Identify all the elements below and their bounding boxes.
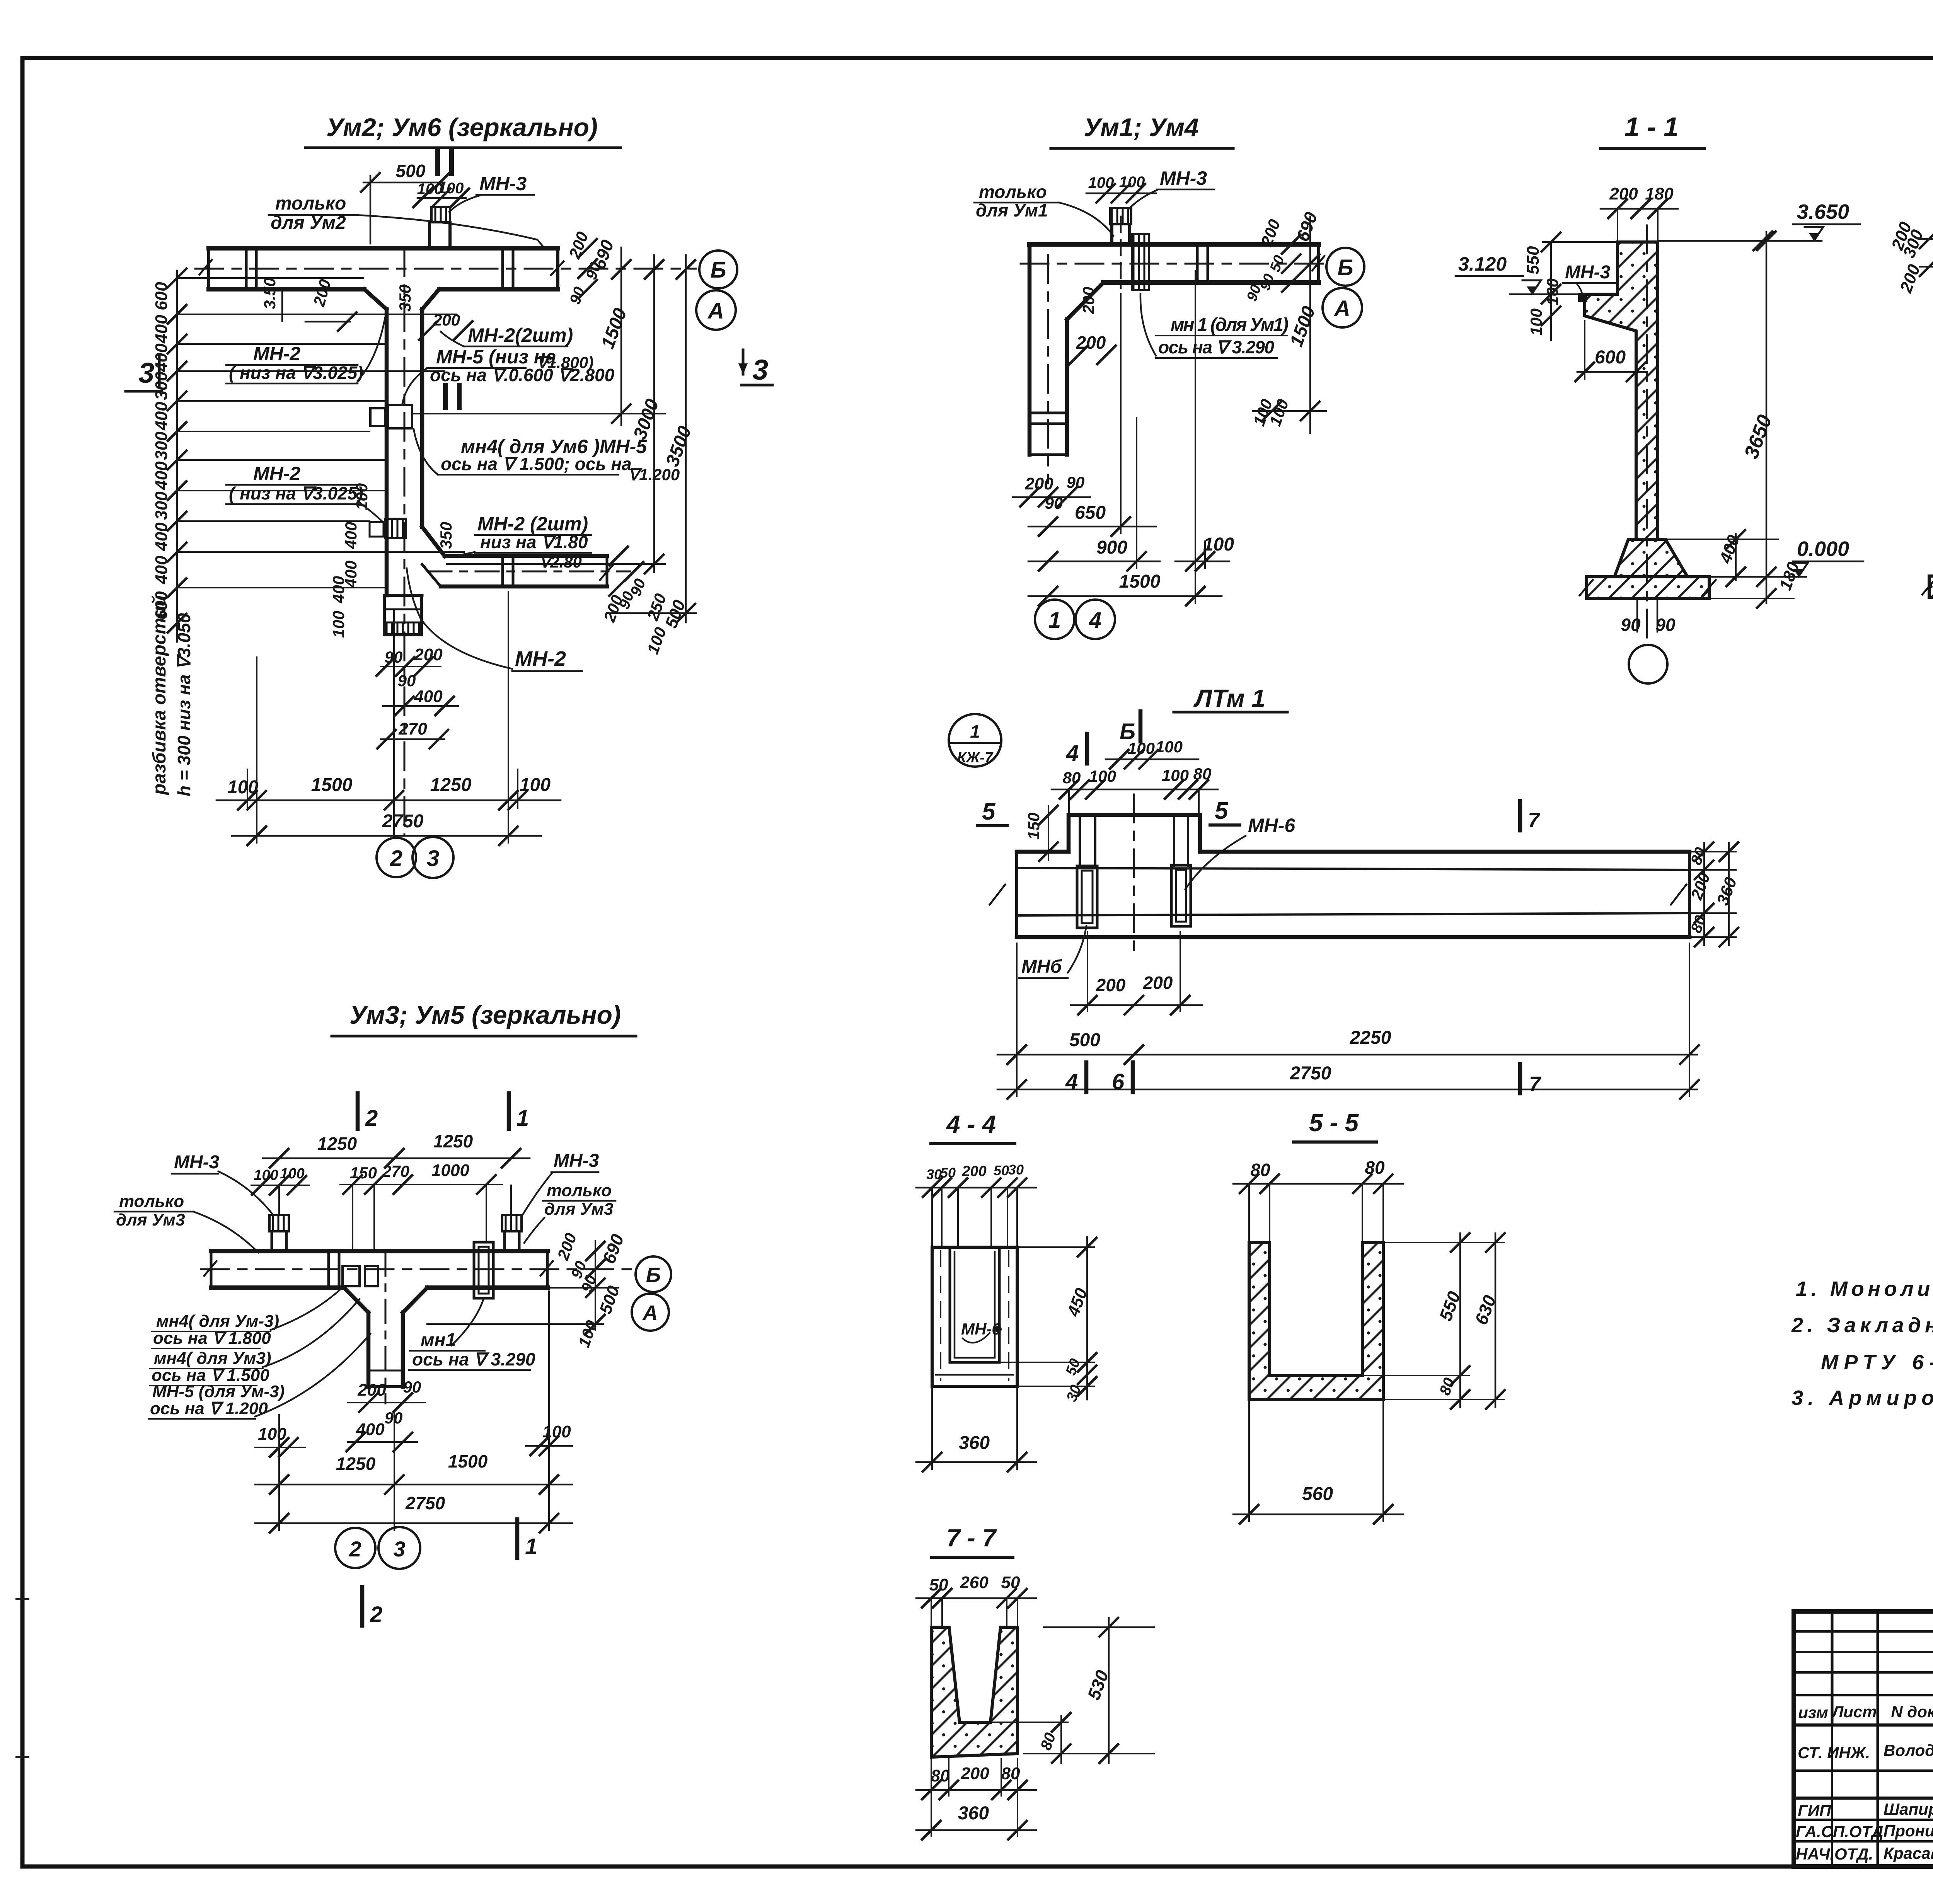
svg-text:650: 650 — [1075, 503, 1106, 523]
svg-text:200: 200 — [1076, 332, 1106, 353]
UM3_ANCHOR — [916, 1109, 1505, 1839]
right dim 1500 fig2 — [1309, 216, 1311, 433]
svg-text:400: 400 — [152, 343, 171, 372]
svg-text:Б: Б — [710, 257, 726, 283]
svg-text:1250: 1250 — [433, 1131, 473, 1151]
svg-text:для Ум3: для Ум3 — [116, 1210, 185, 1229]
slot guides right — [1173, 815, 1175, 866]
svg-text:Б: Б — [646, 1263, 661, 1287]
svg-text:200: 200 — [1096, 975, 1126, 995]
svg-text:ось на ∇ 1.500; ось на: ось на ∇ 1.500; ось на — [441, 454, 632, 474]
svg-text:270: 270 — [382, 1162, 409, 1180]
axis circle 2 um3 — [335, 1528, 375, 1568]
svg-text:560: 560 — [1302, 1484, 1333, 1504]
svg-text:4: 4 — [1089, 608, 1101, 633]
svg-text:1: 1 — [516, 1106, 529, 1131]
extension verticals fig2 — [1120, 294, 1122, 534]
svg-text:200: 200 — [961, 1163, 986, 1180]
svg-text:ось на ∇ 1.200: ось на ∇ 1.200 — [150, 1399, 268, 1418]
right dim 3000 — [653, 255, 655, 572]
svg-text:разбивка отверстий: разбивка отверстий — [149, 595, 170, 796]
svg-text:2: 2 — [390, 846, 402, 871]
svg-text:мн 1 (для Ум1): мн 1 (для Ум1) — [1171, 315, 1289, 335]
S66_ANCHOR — [114, 1001, 671, 1627]
svg-text:350: 350 — [396, 285, 414, 312]
extension verticals um3 — [278, 1185, 280, 1214]
leg chamfer fig2 — [1067, 283, 1103, 319]
svg-text:мн4( для Ум3): мн4( для Ум3) — [154, 1349, 271, 1368]
svg-text:80: 80 — [1365, 1157, 1385, 1178]
svg-text:200: 200 — [1609, 184, 1638, 203]
frame tick left 1 — [15, 1598, 29, 1600]
svg-text:4 - 4: 4 - 4 — [946, 1110, 996, 1138]
title block verticals left part — [1831, 1611, 1834, 1725]
extension line 3000 — [447, 563, 665, 565]
dim 3650 s11 — [1766, 232, 1768, 603]
svg-text:360: 360 — [959, 1433, 990, 1453]
svg-text:360: 360 — [958, 1803, 989, 1824]
svg-text:Ум1; Ум4: Ум1; Ум4 — [1084, 113, 1198, 141]
svg-text:Лист: Лист — [1831, 1703, 1877, 1721]
svg-text:90: 90 — [398, 672, 416, 690]
svg-text:400: 400 — [342, 522, 360, 549]
slot guides left — [1079, 815, 1081, 867]
svg-text:260: 260 — [960, 1573, 989, 1592]
bar centerline dashed — [195, 268, 696, 270]
svg-text:МН-3: МН-3 — [479, 173, 527, 194]
section mark 1 top um3 — [507, 1093, 511, 1129]
bar top edge fig2 — [1030, 242, 1319, 247]
svg-text:900: 900 — [1096, 537, 1127, 558]
break mark right — [1671, 885, 1686, 905]
section mark 3 right — [742, 350, 745, 374]
left dim chain line — [176, 271, 178, 642]
section 1-1 base slab — [1587, 577, 1709, 598]
svg-text:200: 200 — [357, 1381, 386, 1399]
level 0.000 s11 — [1709, 576, 1806, 578]
section 1-1 wall — [1585, 242, 1658, 539]
FIG1_ANCHOR — [974, 113, 1364, 639]
staff rows lines — [1794, 1769, 1933, 1772]
section 2-2 base slab — [1929, 576, 1933, 597]
section mark 2 top — [356, 1093, 360, 1129]
section 4-4 outer — [932, 1247, 1017, 1386]
svg-text:400: 400 — [152, 556, 171, 585]
svg-text:550: 550 — [1524, 246, 1543, 274]
section 7-7 body — [931, 1627, 1018, 1757]
svg-text:6: 6 — [1112, 1069, 1125, 1094]
svg-text:только: только — [119, 1192, 184, 1211]
svg-text:МН-5 (для Ум-3): МН-5 (для Ум-3) — [152, 1382, 285, 1401]
stem chamfer right — [422, 289, 439, 309]
right dims s77 — [1108, 1618, 1110, 1763]
MN1 plate um3 — [474, 1242, 493, 1298]
svg-text:МНб: МНб — [1021, 956, 1062, 977]
detail circle 1 KZh-7 — [949, 714, 1001, 767]
svg-text:МН-2: МН-2 — [253, 343, 300, 365]
svg-text:100: 100 — [1128, 739, 1155, 757]
stem left edge — [385, 309, 389, 595]
right dims s44 — [1086, 1237, 1088, 1399]
svg-text:ЛТм 1: ЛТм 1 — [1193, 684, 1265, 712]
stem centerline um3 — [385, 1253, 387, 1403]
axis circle B um3 — [636, 1256, 671, 1292]
frame tick left 2 — [15, 1756, 29, 1758]
MN-3 plate fig2 — [1110, 208, 1131, 224]
section mark 1 mid — [443, 385, 448, 408]
extension line 3500 — [609, 612, 696, 614]
svg-text:300: 300 — [152, 372, 171, 400]
svg-text:1500: 1500 — [311, 775, 353, 795]
axis circle 4 fig2 — [1076, 600, 1115, 639]
svg-text:мн4( для Ум-3): мн4( для Ум-3) — [156, 1312, 279, 1331]
svg-text:2750: 2750 — [382, 811, 424, 832]
level 3.650 s11 — [1658, 240, 1822, 242]
svg-text:350: 350 — [437, 522, 455, 549]
svg-text:400: 400 — [152, 315, 171, 344]
svg-text:600: 600 — [152, 282, 171, 310]
svg-text:3: 3 — [138, 357, 154, 389]
svg-text:h = 300 низ на ∇3.050: h = 300 низ на ∇3.050 — [174, 613, 194, 796]
bar bottom edge fig2 — [1103, 280, 1319, 285]
svg-text:МН-2: МН-2 — [253, 463, 300, 484]
extension verticals bottom — [256, 657, 257, 843]
dims 90 90 s11 — [1636, 598, 1638, 632]
leg outer edge fig2 — [1028, 244, 1032, 455]
svg-text:3: 3 — [752, 354, 768, 386]
svg-text:2: 2 — [365, 1106, 378, 1131]
leg centerline fig2 — [1047, 255, 1049, 483]
svg-text:200: 200 — [1024, 474, 1053, 493]
svg-text:Ум2; Ум6 (зеркально): Ум2; Ум6 (зеркально) — [326, 113, 598, 141]
svg-text:МН-2: МН-2 — [515, 647, 566, 670]
svg-text:100: 100 — [353, 483, 371, 510]
svg-text:100: 100 — [1203, 534, 1234, 555]
header texts — [1798, 1701, 1933, 1722]
svg-text:3.650: 3.650 — [1797, 200, 1849, 223]
arm bottom edge — [441, 585, 607, 589]
bar centerline fig2 — [1021, 263, 1325, 265]
svg-text:2250: 2250 — [1350, 1028, 1391, 1048]
svg-text:0.000: 0.000 — [1797, 537, 1849, 561]
MN-6 plate left — [1077, 866, 1097, 928]
title block outer — [1794, 1611, 1933, 1866]
MN-5 connector on stem — [370, 408, 385, 426]
svg-text:N докум.: N докум. — [1891, 1703, 1933, 1721]
foot below stem — [387, 594, 422, 597]
svg-text:7: 7 — [1528, 809, 1541, 832]
arm right end — [606, 556, 609, 586]
svg-text:5 - 5: 5 - 5 — [1309, 1109, 1359, 1137]
section mark 1 bottom um3 — [515, 1519, 520, 1558]
svg-text:200: 200 — [1143, 973, 1173, 993]
svg-text:А: А — [1333, 296, 1350, 321]
axis circle A — [696, 290, 736, 330]
right dim 3500 — [685, 255, 687, 622]
svg-text:7 - 7: 7 - 7 — [946, 1524, 997, 1552]
svg-text:100: 100 — [1527, 309, 1545, 336]
svg-text:МН-3: МН-3 — [554, 1151, 599, 1171]
svg-text:100: 100 — [1162, 766, 1189, 784]
svg-text:МН-2 (2шт): МН-2 (2шт) — [477, 513, 588, 535]
svg-text:90: 90 — [1621, 615, 1641, 635]
axis circle A fig2 — [1323, 288, 1362, 327]
svg-text:100: 100 — [329, 611, 348, 638]
beam right end — [1688, 852, 1691, 937]
arm left closure — [422, 564, 441, 586]
bar right end fig2 — [1317, 244, 1320, 283]
svg-text:200: 200 — [1079, 287, 1098, 314]
svg-text:200: 200 — [433, 311, 460, 329]
svg-text:150: 150 — [350, 1164, 377, 1182]
svg-text:2750: 2750 — [1290, 1063, 1331, 1084]
break mark left — [990, 885, 1005, 905]
axis circle 2 — [377, 838, 416, 877]
svg-text:100: 100 — [258, 1425, 286, 1444]
MN-3 plate hatched — [431, 207, 450, 222]
MN-6 plate right — [1171, 865, 1191, 926]
svg-text:5: 5 — [982, 798, 996, 825]
section 1-1 centerline — [1646, 225, 1648, 642]
svg-text:Пронин: Пронин — [1884, 1822, 1933, 1840]
svg-text:только: только — [979, 182, 1047, 202]
section 4-4 inner — [950, 1247, 999, 1362]
beam head — [1069, 815, 1200, 852]
svg-text:1: 1 — [970, 721, 980, 741]
beam third line — [1017, 913, 1689, 915]
S445577_ANCHOR — [1794, 1611, 1933, 1883]
right dim 1500 — [620, 247, 622, 425]
leg bottom fig2 — [1030, 453, 1067, 456]
stem right edge — [420, 309, 424, 527]
svg-text:1250: 1250 — [336, 1454, 376, 1474]
arm top edge — [445, 554, 607, 558]
svg-text:300: 300 — [152, 431, 171, 460]
stem chamfer left — [364, 289, 387, 309]
wall bar top edge — [209, 246, 558, 251]
axis circle A um3 — [632, 1294, 669, 1331]
axis circle B — [699, 251, 737, 288]
svg-text:2. Закладные детали окрасить: 2. Закладные детали окрасить эмалью ЭП-1… — [1791, 1314, 1933, 1337]
MN-1 plate fig2 — [1132, 234, 1149, 290]
svg-text:СТ. ИНЖ.: СТ. ИНЖ. — [1798, 1744, 1870, 1762]
bar joint fig2 — [1196, 244, 1199, 283]
svg-text:А: А — [642, 1301, 658, 1324]
bar joint left — [245, 248, 248, 289]
svg-text:1250: 1250 — [430, 775, 472, 795]
beam second line — [1017, 868, 1689, 870]
svg-text:2750: 2750 — [405, 1493, 445, 1513]
svg-text:1: 1 — [1048, 608, 1061, 633]
leg break joint fig2 — [1030, 412, 1067, 414]
bar top edge um3 — [211, 1249, 547, 1253]
section mark 2 bottom um3 — [360, 1587, 365, 1626]
bar joint um3 — [327, 1251, 330, 1288]
staff texts — [1796, 1741, 1933, 1863]
svg-text:300: 300 — [152, 491, 171, 520]
axis circle 3 um3 — [378, 1527, 420, 1569]
svg-text:4: 4 — [1065, 1069, 1078, 1094]
svg-text:400: 400 — [152, 522, 171, 551]
bar ends um3 — [210, 1251, 213, 1288]
svg-text:ось на ∇ 3.290: ось на ∇ 3.290 — [1158, 337, 1274, 357]
svg-text:Володин: Володин — [1884, 1741, 1933, 1759]
svg-text:200: 200 — [960, 1764, 989, 1783]
svg-text:1500: 1500 — [448, 1451, 488, 1471]
title block thin rows — [1794, 1630, 1933, 1633]
svg-text:мн1: мн1 — [421, 1330, 456, 1350]
left chain labels — [152, 282, 171, 620]
section mark 7 bottom — [1518, 1064, 1522, 1093]
stem to arm chamfer — [422, 527, 445, 556]
svg-text:500: 500 — [1069, 1030, 1100, 1050]
svg-text:Ум3; Ум5 (зеркально): Ум3; Ум5 (зеркально) — [349, 1001, 621, 1029]
stem chamfers um3 — [344, 1288, 368, 1313]
beam right dims — [1689, 851, 1736, 852]
svg-text:400: 400 — [152, 461, 171, 490]
svg-text:1000: 1000 — [431, 1161, 469, 1180]
ext line 100 100 fig2 — [1253, 410, 1326, 412]
svg-text:5: 5 — [1215, 798, 1229, 824]
svg-text:МН-6: МН-6 — [1248, 815, 1295, 836]
bar joint right — [501, 248, 504, 289]
svg-text:МН-3: МН-3 — [174, 1152, 220, 1173]
svg-text:1: 1 — [525, 1534, 537, 1559]
wall bar bottom edge right — [439, 287, 558, 291]
left chain extension lines — [177, 277, 363, 279]
svg-text:ось на ∇ 3.290: ось на ∇ 3.290 — [412, 1349, 535, 1369]
beam centerline — [1133, 794, 1135, 955]
svg-text:90: 90 — [1655, 615, 1676, 635]
svg-text:ГА.СП.ОТД.: ГА.СП.ОТД. — [1796, 1822, 1888, 1841]
bar left end — [207, 248, 210, 289]
MN-4 hatched connector — [385, 519, 406, 538]
svg-text:только: только — [547, 1181, 612, 1200]
junction connectors um3 — [343, 1266, 360, 1286]
stub walls — [428, 222, 431, 248]
svg-text:400: 400 — [414, 687, 443, 706]
svg-text:100: 100 — [1156, 738, 1183, 756]
svg-text:400: 400 — [152, 402, 171, 431]
section mark 1 top — [435, 150, 440, 174]
svg-text:50: 50 — [994, 1163, 1009, 1178]
leg inner edge fig2 — [1065, 319, 1069, 455]
arm centerline dashed — [428, 571, 630, 573]
svg-text:Шапиро: Шапиро — [1884, 1800, 1933, 1818]
arm joint — [501, 556, 504, 586]
svg-text:150: 150 — [1024, 813, 1043, 840]
svg-text:изм: изм — [1798, 1703, 1828, 1722]
bar right end — [556, 248, 559, 289]
FIG2_ANCHOR — [1456, 112, 1933, 684]
axis circle 3 — [413, 837, 453, 878]
stem edges um3 — [366, 1313, 371, 1387]
extension line mid — [412, 413, 665, 414]
beam bottom edge — [1017, 935, 1689, 939]
svg-text:3: 3 — [427, 846, 439, 871]
bar centerline um3 — [201, 1268, 634, 1270]
svg-text:270: 270 — [398, 719, 427, 738]
svg-text:1500: 1500 — [1119, 571, 1161, 592]
svg-text:1250: 1250 — [317, 1134, 357, 1154]
svg-text:МН-3: МН-3 — [1565, 262, 1611, 283]
svg-text:400: 400 — [329, 576, 348, 603]
svg-text:только: только — [275, 193, 346, 214]
svg-text:МН-3: МН-3 — [1160, 167, 1207, 189]
svg-text:3.50: 3.50 — [261, 278, 279, 309]
axis circle s11 — [1629, 645, 1667, 684]
wall bar bottom edge left — [209, 287, 364, 291]
svg-text:2: 2 — [349, 1537, 361, 1561]
stem centerline dashed — [404, 248, 406, 835]
bar bottom edge um3 — [211, 1285, 344, 1290]
section mark 7 top — [1518, 801, 1522, 830]
svg-text:4: 4 — [1066, 741, 1079, 766]
section 5-5 body — [1249, 1243, 1383, 1399]
svg-text:А: А — [707, 298, 724, 324]
svg-text:1 - 1: 1 - 1 — [1624, 112, 1679, 142]
axis circle B fig2 — [1326, 248, 1364, 286]
beam top edge — [1017, 850, 1069, 854]
svg-text:ГИП: ГИП — [1798, 1802, 1831, 1820]
header row line — [1794, 1723, 1933, 1727]
SEC123_ANCHOR — [949, 684, 1741, 1099]
beam left end — [1015, 852, 1018, 937]
svg-text:( низ на ∇3.025): ( низ на ∇3.025) — [229, 483, 363, 503]
axis circle 1 fig2 — [1035, 600, 1074, 639]
svg-text:600: 600 — [1595, 347, 1626, 368]
MN-3 plate right um3 — [502, 1215, 522, 1231]
svg-text:НАЧ.ОТД.: НАЧ.ОТД. — [1796, 1845, 1873, 1863]
svg-text:МН-2(2шт): МН-2(2шт) — [468, 324, 573, 346]
svg-text:Красавин: Красавин — [1884, 1844, 1933, 1862]
svg-text:КЖ-7: КЖ-7 — [957, 750, 994, 766]
section 1-1 footing — [1614, 539, 1688, 577]
right dims s55 — [1459, 1233, 1461, 1407]
svg-text:Б: Б — [1337, 255, 1353, 280]
MN-3 plate left um3 — [269, 1215, 289, 1231]
svg-text:для Ум3: для Ум3 — [544, 1200, 613, 1219]
stub walls fig2 — [1110, 224, 1113, 244]
svg-text:∇2.80: ∇2.80 — [539, 553, 582, 571]
svg-text:30: 30 — [1008, 1162, 1024, 1178]
svg-text:3: 3 — [393, 1537, 405, 1561]
svg-text:3.120: 3.120 — [1458, 253, 1507, 275]
svg-text:500: 500 — [396, 161, 426, 181]
svg-text:80: 80 — [1063, 769, 1081, 787]
svg-text:2: 2 — [370, 1602, 382, 1627]
svg-text:80: 80 — [1250, 1160, 1270, 1180]
svg-text:7: 7 — [1529, 1072, 1542, 1096]
